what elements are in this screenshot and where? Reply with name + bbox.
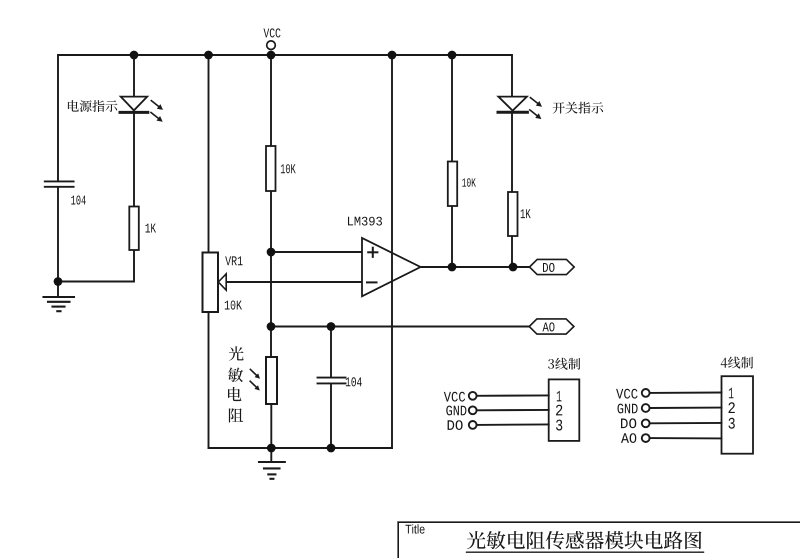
wire: LED1 cathode to R 1K [133,114,135,207]
label J1 pin number 1 [557,391,562,402]
label 3-wire 3线制 [548,358,580,370]
op-amp plus sign [368,248,377,257]
wire: right 10K to output node [451,206,453,267]
label J2 pin label AO [621,433,636,443]
label DO flag text [543,263,555,272]
label C2 value 104 [346,377,362,386]
label U1 LM393 [348,217,382,226]
label C1 value 104 [71,196,86,205]
label photoresistor 光 [229,346,244,361]
label photoresistor 电 [228,387,241,401]
wire: 1K to output node [511,236,513,267]
J2 pin circles and wires [642,389,722,442]
connector J1 3-wire body [549,379,580,441]
wire: VR1 top [208,55,210,253]
label J2 pin number 1 [729,388,734,399]
label R3 value 10K [462,178,476,187]
capacitor C2 104 plates [318,378,346,384]
LED D1 power indicator [120,97,148,113]
wire: LED2 cathode to 1K [511,114,513,192]
wire: VR1 bottom to ground rail [208,312,210,448]
label R2 value 10K [281,164,296,173]
label J1 pin label DO [448,420,463,430]
ground GND2 [259,448,285,479]
resistor R3 10K body [448,162,457,207]
label photoresistor 敏 [228,368,243,383]
wire: ground node to LED1 branch bottom [58,250,134,282]
op-amp U1 LM393 triangle [362,238,421,296]
label J1 pin number 2 [556,405,562,416]
title underline [467,551,704,553]
wire: 10K to photoresistor node [270,191,272,357]
label R4 value 1K [521,209,531,218]
wire: ground rail bottom [209,447,393,449]
wire: node A to AO flag [271,326,529,328]
wire: top VCC rail [58,55,512,180]
label VCC top [264,28,281,37]
AO output flag [529,319,574,334]
potentiometer VR1 body [203,253,219,313]
label J2 pin label GND [618,404,638,414]
title block border [398,522,800,558]
title text 光敏电阻传感器模块电路图 [467,531,702,549]
LED D1 light arrows [151,101,163,122]
label J2 pin label DO [621,418,636,428]
wire: op-amp supply vertical [391,55,393,448]
label J1 pin label VCC [444,392,465,402]
label Title word [405,524,424,533]
label switch-indicator 开关指示 [553,102,604,114]
label J1 pin number 3 [556,420,562,431]
wire: cap C2 top lead [330,327,332,377]
photoresistor body [266,357,277,404]
potentiometer VR1 wiper arrow [218,274,226,290]
DO output flag [530,259,575,274]
label J1 pin label GND [446,406,466,416]
J1 pin circles and wires [469,392,549,429]
label VR1 value 10K [225,301,242,310]
label power-indicator 电源指示 [68,100,118,112]
wire: op-amp + input [271,251,362,253]
wire: right 10K branch top [451,55,453,162]
wire: cap C2 bottom lead [330,384,332,448]
label J2 pin label VCC [616,389,638,399]
wire: LED1 branch top [133,55,135,97]
connector J2 4-wire body [722,376,754,454]
label J2 pin number 2 [729,402,735,413]
LED D2 light arrows [530,98,542,120]
wire: photoresistor bottom to ground rail [270,404,272,448]
resistor R1 1K body [129,207,139,251]
ground GND1 [44,282,75,312]
wire: op-amp output to DO flag [421,266,530,268]
wire: left cap bottom to ground node [57,188,59,282]
resistor R4 1K body [508,192,518,236]
label AO flag text [543,322,555,331]
resistor R2 10K body [266,146,276,191]
label VR1 refdes [225,256,242,265]
VCC terminal circle [267,41,276,50]
label J2 pin number 3 [729,418,735,429]
capacitor C1 104 plates [45,181,74,186]
label photoresistor 阻 [229,408,243,422]
label 4-wire 4线制 [721,357,753,369]
LED D2 switch indicator [498,97,527,113]
photoresistor light arrows [250,369,260,390]
wire: VR1 wiper to op-amp - input [226,281,362,283]
wire: center branch VCC to 10K [270,55,272,146]
label R1 value 1K [146,224,157,233]
op-amp minus sign [367,281,377,283]
